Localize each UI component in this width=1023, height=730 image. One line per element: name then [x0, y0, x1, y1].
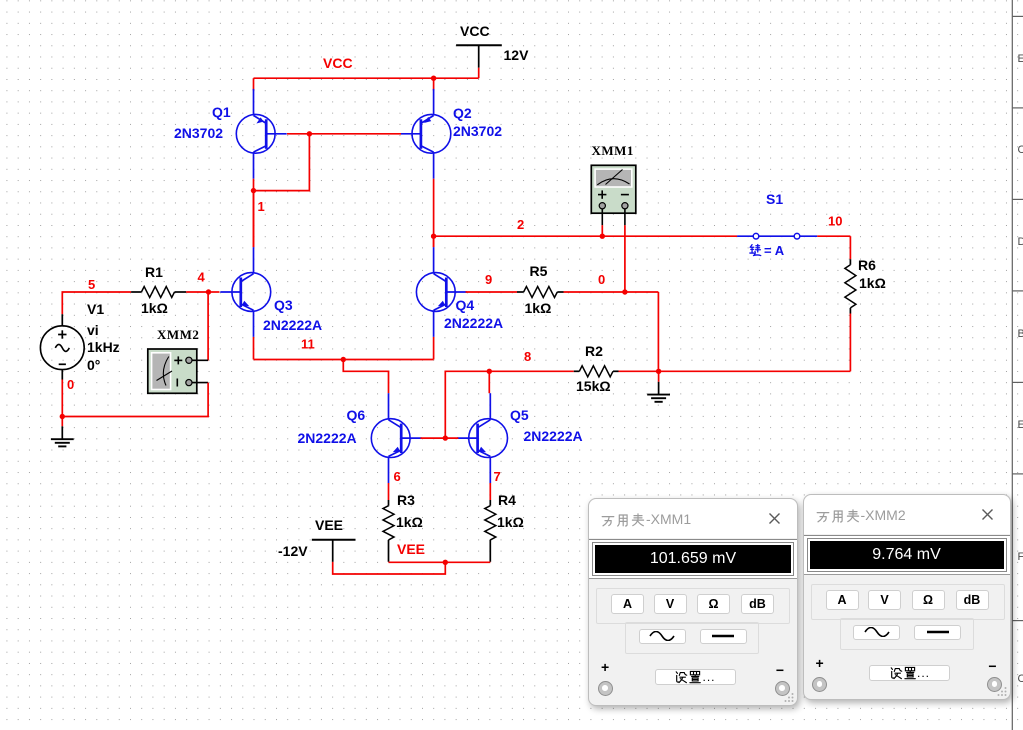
svg-text:F: F — [1018, 551, 1023, 563]
svg-text:2N2222A: 2N2222A — [444, 315, 503, 331]
svg-text:R2: R2 — [585, 343, 603, 359]
svg-text:0: 0 — [598, 272, 605, 287]
svg-text:15kΩ: 15kΩ — [576, 378, 611, 394]
svg-text:2N2222A: 2N2222A — [298, 430, 357, 446]
svg-text:VEE: VEE — [315, 517, 343, 533]
svg-text:1kΩ: 1kΩ — [141, 300, 168, 316]
svg-text:R6: R6 — [858, 257, 876, 273]
svg-text:1kΩ: 1kΩ — [859, 275, 886, 291]
svg-text:0°: 0° — [87, 357, 100, 373]
svg-text:VCC: VCC — [323, 55, 353, 71]
svg-text:1kΩ: 1kΩ — [497, 514, 524, 530]
svg-text:11: 11 — [301, 337, 315, 352]
svg-text:R4: R4 — [498, 492, 516, 508]
svg-text:1kΩ: 1kΩ — [525, 300, 552, 316]
svg-text:5: 5 — [88, 277, 95, 292]
svg-text:Q1: Q1 — [212, 104, 231, 120]
svg-text:1kHz: 1kHz — [87, 339, 120, 355]
svg-text:Q2: Q2 — [453, 105, 472, 121]
svg-text:R3: R3 — [397, 492, 415, 508]
svg-text:12V: 12V — [504, 47, 530, 63]
svg-text:4: 4 — [198, 270, 206, 285]
svg-text:8: 8 — [524, 349, 531, 364]
svg-text:D: D — [1018, 236, 1023, 248]
svg-text:XMM1: XMM1 — [592, 143, 634, 158]
svg-text:E: E — [1018, 419, 1023, 431]
svg-text:XMM2: XMM2 — [157, 327, 199, 342]
svg-text:E: E — [1018, 53, 1023, 65]
svg-text:S1: S1 — [766, 191, 783, 207]
svg-text:vi: vi — [87, 322, 99, 338]
svg-text:= A: = A — [764, 243, 785, 258]
svg-text:2N3702: 2N3702 — [174, 125, 223, 141]
svg-text:Q5: Q5 — [510, 407, 529, 423]
svg-text:2N3702: 2N3702 — [453, 123, 502, 139]
svg-text:R5: R5 — [530, 263, 548, 279]
svg-text:1kΩ: 1kΩ — [396, 514, 423, 530]
svg-text:2N2222A: 2N2222A — [524, 428, 583, 444]
svg-text:0: 0 — [67, 377, 74, 392]
svg-text:Q3: Q3 — [274, 297, 293, 313]
svg-text:-12V: -12V — [278, 543, 308, 559]
svg-text:9: 9 — [485, 272, 492, 287]
svg-text:B: B — [1018, 328, 1023, 340]
svg-text:6: 6 — [394, 469, 401, 484]
svg-text:C: C — [1018, 673, 1023, 685]
svg-text:R1: R1 — [145, 264, 163, 280]
svg-text:2: 2 — [517, 217, 524, 232]
svg-text:C: C — [1018, 144, 1023, 156]
svg-text:10: 10 — [828, 214, 842, 229]
svg-text:Q4: Q4 — [456, 297, 475, 313]
svg-text:2N2222A: 2N2222A — [263, 317, 322, 333]
svg-text:VEE: VEE — [397, 541, 425, 557]
svg-text:V1: V1 — [87, 301, 104, 317]
svg-text:7: 7 — [494, 469, 501, 484]
svg-text:VCC: VCC — [460, 23, 490, 39]
svg-text:Q6: Q6 — [347, 407, 366, 423]
svg-text:1: 1 — [258, 199, 265, 214]
